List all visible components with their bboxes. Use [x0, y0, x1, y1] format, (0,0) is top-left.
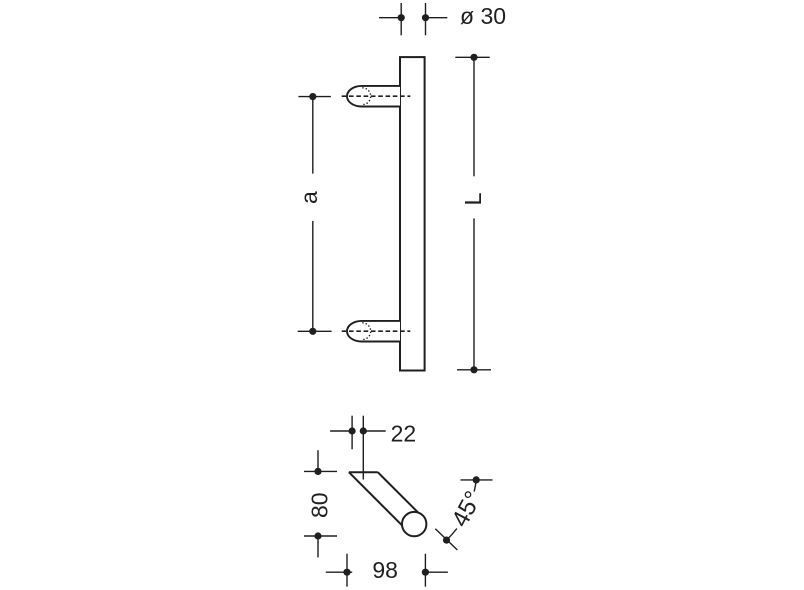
dimension 98: right dot — [422, 569, 429, 576]
dimension ø30: right extension line — [425, 3, 427, 35]
dimension a: bottom dot — [309, 328, 316, 335]
dimension 45deg: lower dot — [443, 537, 450, 544]
dimension a: dimension line lower segment — [312, 221, 314, 331]
dimension 98: left dimension line — [326, 571, 352, 573]
dimension ø30: left dimension line — [379, 17, 401, 19]
dimension a: top dot — [309, 93, 316, 100]
dimension 22: right extension line (long, into cylinder) — [362, 416, 364, 480]
top support (stadium-shaped post) — [347, 86, 400, 107]
dimension 80: top dot — [314, 468, 321, 475]
top support centerline (dashed) — [342, 95, 411, 97]
dimension 45deg: arc upper segment — [474, 480, 476, 492]
dimension 80: top tick — [304, 470, 337, 472]
svg-text:a: a — [296, 191, 322, 204]
dimension 80: lower extension line — [317, 536, 319, 557]
dimension ø30: left extension line — [400, 3, 402, 35]
svg-text:80: 80 — [307, 492, 333, 518]
dimension ø30: left dot — [398, 14, 405, 21]
dimension 22: left extension line — [351, 416, 353, 450]
dimension L: bottom tick — [457, 369, 491, 371]
dimension 45deg: diagonal tick at lower dot — [435, 529, 457, 550]
wall support cylinder: left side line at 45 deg — [349, 472, 403, 526]
dimension L: dimension line upper segment — [473, 57, 475, 176]
svg-text:98: 98 — [372, 557, 398, 583]
svg-text:ø 30: ø 30 — [460, 3, 506, 29]
dimension ø30: right dimension line — [426, 17, 448, 19]
wall support cylinder end circle — [402, 512, 426, 536]
handle bar (front view, vertical rectangle) — [400, 57, 425, 370]
dimension ø30: right dot — [422, 14, 429, 21]
bottom support hidden circle (dotted) — [362, 323, 370, 340]
dimension L: top tick — [455, 56, 489, 58]
dimension a: bottom tick — [298, 330, 332, 332]
dimension L: dimension line lower segment — [473, 218, 475, 369]
dimension 98: left dot — [343, 569, 350, 576]
dimension 80: upper extension line — [317, 450, 319, 471]
dimension 22: right dot — [360, 427, 367, 434]
bottom support centerline (dashed) — [342, 330, 411, 332]
dimension 22: right dimension line — [363, 430, 386, 432]
svg-text:22: 22 — [391, 420, 417, 446]
dimension 22: left dot — [349, 427, 356, 434]
wall support cylinder: right side line at 45 deg — [378, 472, 419, 513]
dimension 98: left extension line — [346, 554, 348, 587]
dimension 22: left dimension line — [330, 430, 353, 432]
top support hidden circle (dotted) — [362, 88, 370, 105]
dimension 98: right extension line — [424, 554, 426, 587]
dimension a: top tick — [298, 96, 331, 98]
svg-text:L: L — [460, 192, 486, 205]
dimension 45deg: arc lower segment — [447, 529, 457, 541]
dimension 80: bottom tick — [304, 535, 337, 537]
dimension 45deg: horizontal tick at upper dot — [461, 479, 493, 481]
dimension 98: right dimension line — [425, 571, 448, 573]
wall support cylinder at 45 deg: top (wall) edge — [349, 471, 378, 473]
dimension L: top dot — [470, 54, 477, 61]
dimension 80: bottom dot — [314, 532, 321, 539]
dimension a: dimension line upper segment — [312, 97, 314, 174]
bottom support (stadium-shaped post) — [347, 321, 400, 342]
dimension L: bottom dot — [470, 366, 477, 373]
dimension 45deg: upper dot — [473, 476, 480, 483]
